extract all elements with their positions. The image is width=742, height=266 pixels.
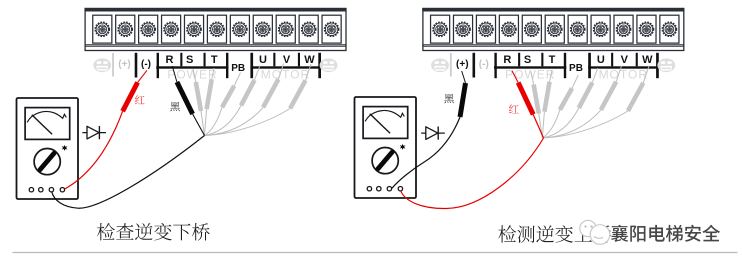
ghost probe T wire xyxy=(542,112,544,138)
gray divider bar xyxy=(450,53,452,77)
screw terminal cell 7 xyxy=(230,15,249,43)
ghost probe U xyxy=(579,83,593,109)
screw 8 xyxy=(256,22,270,36)
bottom divider rule xyxy=(13,252,737,254)
screw terminal cell 6 xyxy=(207,15,226,43)
screw terminal cell 1 xyxy=(431,15,450,43)
screw terminal cell 2 xyxy=(116,15,135,43)
multimeter body xyxy=(355,97,417,198)
POWER group bracket xyxy=(157,53,159,78)
left ghost probe fan xyxy=(193,64,311,136)
svg-text:W: W xyxy=(642,54,653,66)
screw terminal cell 10 xyxy=(299,15,318,43)
right terminal label row xyxy=(431,53,675,82)
screw terminal cell 4 xyxy=(499,15,518,43)
screw terminal cell 2 xyxy=(453,15,472,43)
svg-text:(+): (+) xyxy=(456,59,469,70)
ghost probe PB xyxy=(560,88,572,110)
ghost probe PB wire xyxy=(205,107,223,135)
screw 3 xyxy=(141,22,155,36)
screw terminal cell 5 xyxy=(522,15,541,43)
terminal block outer shell xyxy=(423,9,684,51)
left terminal block xyxy=(85,8,347,51)
screw 10 xyxy=(302,22,316,36)
terminal block top bar xyxy=(422,8,684,12)
black test lead wire to meter right xyxy=(392,117,460,188)
screw terminal cell 8 xyxy=(253,15,272,43)
screw 11 xyxy=(662,22,676,36)
screw terminal cell 8 xyxy=(591,15,610,43)
screw terminal cell 11 xyxy=(660,15,679,43)
screw terminal cell 3 xyxy=(139,15,158,43)
svg-text:V: V xyxy=(621,54,629,66)
svg-text:R: R xyxy=(166,54,174,66)
label 红 (red) right xyxy=(509,105,519,114)
terminal block lower rails xyxy=(85,44,347,46)
ghost probe W wire xyxy=(542,111,628,138)
ghost probe S wire xyxy=(539,114,543,139)
red probe on (-) terminal xyxy=(138,70,147,82)
tick between (+) and (-) xyxy=(135,53,138,78)
screw terminal cell 10 xyxy=(637,15,656,43)
black probe on (+) terminal right xyxy=(462,71,466,83)
svg-text:MOTOR: MOTOR xyxy=(261,68,310,82)
screw terminal cell 3 xyxy=(476,15,495,43)
caption left: 检查逆变下桥 xyxy=(97,223,210,241)
black test lead wire (meter to probes junction) xyxy=(52,136,205,209)
screw 9 xyxy=(279,22,293,36)
svg-text:(+): (+) xyxy=(118,59,131,70)
svg-text:U: U xyxy=(597,54,605,66)
ghost probe U wire xyxy=(542,108,579,138)
screw 10 xyxy=(639,22,653,36)
svg-text:PB: PB xyxy=(231,63,245,74)
screw 4 xyxy=(164,22,178,36)
screw 8 xyxy=(594,22,608,36)
caption right: 检测逆变上桥 xyxy=(498,225,611,243)
terminal block lower rails xyxy=(422,44,684,46)
svg-text:R: R xyxy=(503,54,511,66)
ghost probe V wire xyxy=(542,110,601,138)
screw terminal cell 7 xyxy=(568,15,587,43)
red probe on R terminal right xyxy=(512,71,518,83)
svg-text:POWER: POWER xyxy=(505,68,555,82)
screw terminal cell 9 xyxy=(276,15,295,43)
right ghost probe fan xyxy=(531,66,649,138)
svg-text:T: T xyxy=(211,54,218,66)
svg-text:PB: PB xyxy=(569,63,583,74)
ground terminal symbol right xyxy=(320,58,338,72)
black probe on R terminal xyxy=(172,66,177,82)
multimeter body xyxy=(17,98,79,199)
ghost probe S wire xyxy=(201,111,205,136)
red test lead wire (meter to probes junction) right xyxy=(401,138,544,209)
screw 2 xyxy=(456,22,470,36)
watermark text 襄阳电梯安全 xyxy=(611,225,720,242)
screw 7 xyxy=(233,22,247,36)
screw 7 xyxy=(571,22,585,36)
ghost probe PB wire xyxy=(542,110,560,138)
screw 4 xyxy=(502,22,516,36)
gray divider bar xyxy=(112,53,114,77)
screw 1 xyxy=(433,22,447,36)
svg-text:(-): (-) xyxy=(479,59,489,70)
screw terminal cell 1 xyxy=(93,15,112,43)
tick between (+) and (-) xyxy=(473,53,476,78)
ghost probe PB xyxy=(222,86,234,108)
svg-text:U: U xyxy=(259,54,267,66)
svg-text:T: T xyxy=(549,54,556,66)
screw terminal cell 9 xyxy=(614,15,633,43)
ghost probe U wire xyxy=(205,106,242,136)
label 黑 (black) right xyxy=(444,94,454,103)
ghost probe W xyxy=(628,83,643,111)
label 红 (red) left xyxy=(135,95,145,104)
ghost probe W xyxy=(290,80,305,108)
diode symbol right xyxy=(421,127,445,140)
diode symbol left xyxy=(82,126,106,139)
ghost probe S xyxy=(196,82,201,111)
ghost probe V xyxy=(263,79,278,107)
svg-text:W: W xyxy=(304,54,315,66)
screw 2 xyxy=(118,22,132,36)
ghost probe T xyxy=(544,82,549,112)
screw 11 xyxy=(325,22,339,36)
screw 1 xyxy=(95,22,109,36)
screw 9 xyxy=(617,22,631,36)
label 黑 (black) left xyxy=(170,102,180,111)
ground terminal symbol left xyxy=(431,58,449,72)
svg-text:S: S xyxy=(186,54,193,66)
screw terminal cell 6 xyxy=(545,15,564,43)
screw terminal cell 4 xyxy=(162,15,181,43)
ground terminal symbol left xyxy=(93,58,111,72)
svg-text:(-): (-) xyxy=(141,59,151,70)
right terminal block xyxy=(422,8,684,51)
screw terminal cell 5 xyxy=(184,15,203,43)
MOTOR group bracket xyxy=(250,53,253,78)
screw 6 xyxy=(548,22,562,36)
screw 3 xyxy=(479,22,493,36)
screw 6 xyxy=(210,22,224,36)
watermark logo circle xyxy=(580,220,610,244)
ghost probe T wire xyxy=(205,109,207,135)
screw 5 xyxy=(525,22,539,36)
terminal block top bar xyxy=(85,8,347,12)
ghost probe V wire xyxy=(205,107,264,135)
ghost probe W wire xyxy=(205,109,291,136)
ground terminal symbol right xyxy=(657,58,675,72)
red test lead wire to meter xyxy=(65,111,123,189)
left terminal label row xyxy=(93,53,337,82)
ghost probe V xyxy=(601,82,616,110)
screw 5 xyxy=(187,22,201,36)
svg-text:MOTOR: MOTOR xyxy=(599,68,648,82)
svg-text:V: V xyxy=(283,54,291,66)
ghost probe S xyxy=(534,85,539,114)
svg-text:S: S xyxy=(524,54,531,66)
ghost probe T xyxy=(207,79,212,109)
POWER group bracket xyxy=(494,53,496,78)
screw terminal cell 11 xyxy=(322,15,341,43)
MOTOR group bracket xyxy=(588,53,591,78)
terminal block outer shell xyxy=(85,9,346,51)
ghost probe U xyxy=(241,80,255,106)
